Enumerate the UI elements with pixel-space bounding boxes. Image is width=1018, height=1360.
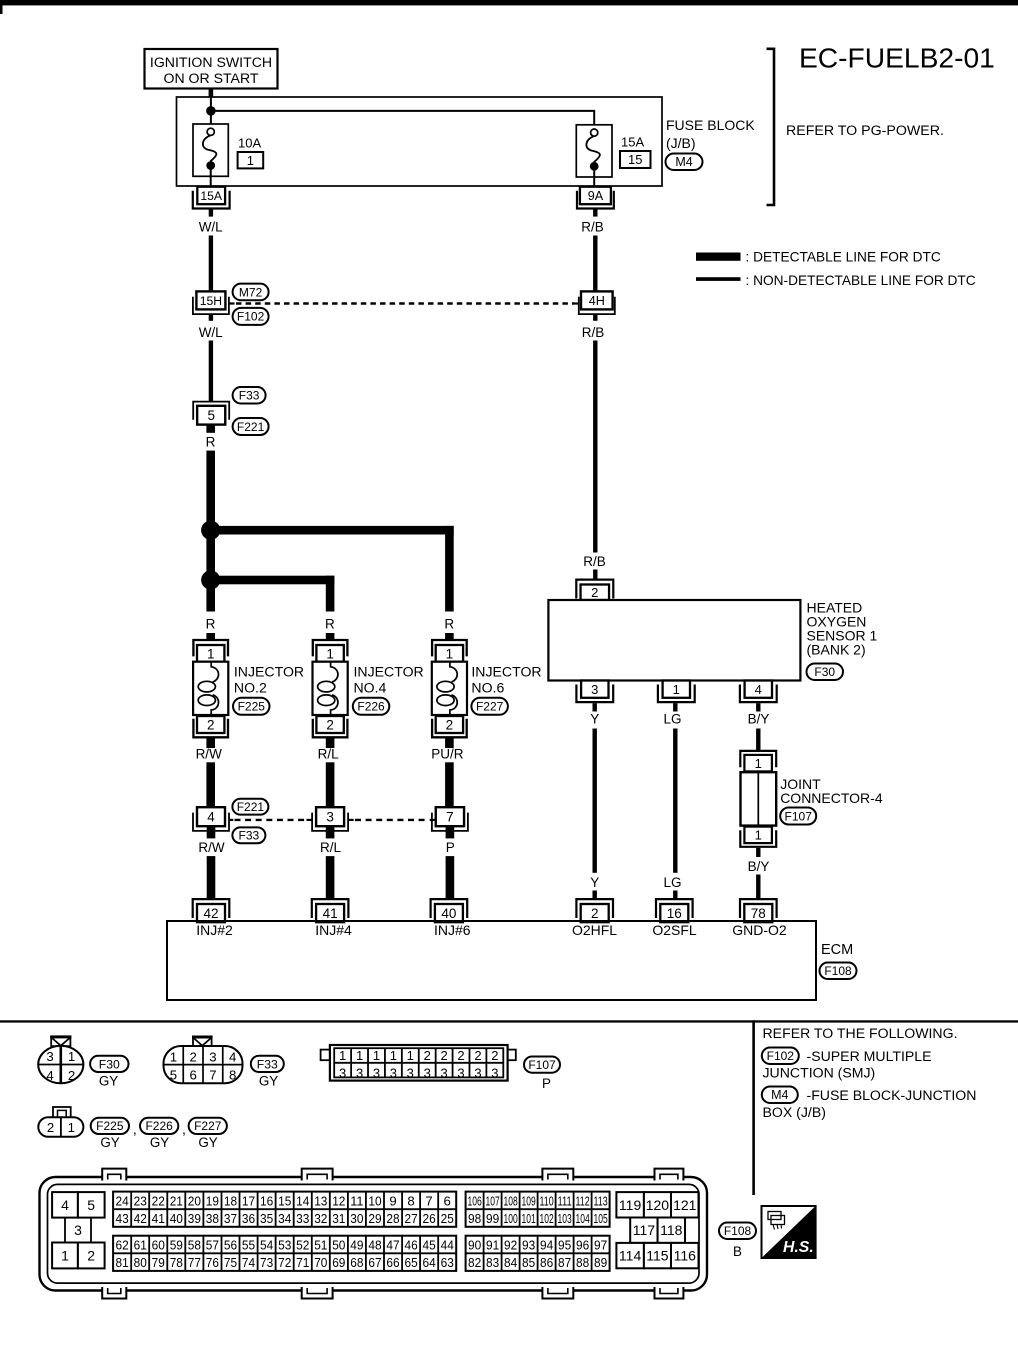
svg-text:39: 39 bbox=[188, 1211, 201, 1226]
svg-text:R: R bbox=[325, 617, 335, 632]
section divider bbox=[0, 1020, 1018, 1195]
svg-text:91: 91 bbox=[486, 1238, 499, 1253]
ignition switch box bbox=[145, 49, 278, 89]
connector F33 bbox=[233, 387, 266, 404]
svg-text:R: R bbox=[444, 617, 454, 632]
svg-text:1: 1 bbox=[373, 1048, 380, 1063]
svg-text:89: 89 bbox=[594, 1255, 607, 1270]
svg-text:69: 69 bbox=[332, 1255, 345, 1270]
svg-text:42: 42 bbox=[134, 1211, 147, 1226]
svg-text:117: 117 bbox=[633, 1222, 656, 1238]
ECM pin 16 O2SFL bbox=[656, 899, 693, 922]
svg-text:100: 100 bbox=[504, 1211, 518, 1226]
svg-text:102: 102 bbox=[540, 1211, 554, 1226]
wire W/L 15H to F33 bbox=[199, 315, 223, 402]
svg-text:34: 34 bbox=[278, 1211, 291, 1226]
svg-text:115: 115 bbox=[646, 1248, 669, 1264]
svg-text:O2SFL: O2SFL bbox=[652, 922, 697, 938]
joint connector-4 pin 1 top bbox=[740, 751, 776, 772]
ECM face right pin block bbox=[616, 1192, 698, 1268]
svg-text:85: 85 bbox=[522, 1255, 535, 1270]
svg-text:INJ#6: INJ#6 bbox=[434, 922, 471, 938]
svg-text:2: 2 bbox=[207, 718, 215, 733]
svg-text:62: 62 bbox=[116, 1238, 129, 1253]
dashed line 3 to 7 bbox=[355, 819, 430, 821]
sensor pin 4 bbox=[740, 681, 777, 703]
svg-text:71: 71 bbox=[296, 1255, 309, 1270]
connector 4 bbox=[193, 807, 233, 831]
svg-text:25: 25 bbox=[441, 1211, 454, 1226]
connector 7 bbox=[430, 807, 468, 831]
fuse 15A label and number 15 bbox=[620, 135, 651, 169]
svg-text:-SUPER MULTIPLE: -SUPER MULTIPLE bbox=[807, 1048, 932, 1064]
svg-text:36: 36 bbox=[242, 1211, 255, 1226]
svg-text:2: 2 bbox=[87, 1248, 95, 1264]
svg-text:105: 105 bbox=[594, 1211, 608, 1226]
svg-text:110: 110 bbox=[540, 1194, 554, 1209]
svg-text:JUNCTION (SMJ): JUNCTION (SMJ) bbox=[763, 1065, 876, 1081]
svg-text:H.S.: H.S. bbox=[783, 1239, 814, 1256]
svg-text:6: 6 bbox=[189, 1068, 196, 1083]
svg-text:2: 2 bbox=[591, 906, 599, 921]
svg-text:17: 17 bbox=[242, 1194, 255, 1209]
wire Y sensor to ECM bbox=[590, 703, 599, 899]
F30 face label bbox=[90, 1056, 128, 1089]
svg-text:,: , bbox=[133, 1121, 137, 1137]
ECM connector face outline bbox=[40, 1169, 708, 1299]
svg-text:ON OR START: ON OR START bbox=[163, 70, 258, 86]
junction node in fuse block bbox=[206, 106, 216, 116]
svg-text:50: 50 bbox=[332, 1238, 345, 1253]
svg-text:27: 27 bbox=[405, 1211, 418, 1226]
svg-text:INJECTOR: INJECTOR bbox=[354, 663, 424, 679]
svg-text:43: 43 bbox=[116, 1211, 129, 1226]
svg-text:F33: F33 bbox=[239, 829, 260, 843]
svg-text:14: 14 bbox=[296, 1194, 309, 1209]
svg-text:1: 1 bbox=[390, 1048, 397, 1063]
svg-text:EC-FUELB2-01: EC-FUELB2-01 bbox=[799, 42, 995, 74]
svg-text:74: 74 bbox=[242, 1255, 255, 1270]
svg-text:68: 68 bbox=[350, 1255, 363, 1270]
scan border bar top bbox=[0, 0, 1018, 14]
svg-text:F221: F221 bbox=[237, 420, 265, 434]
svg-text:P: P bbox=[542, 1076, 551, 1091]
connector 15H bbox=[193, 291, 229, 314]
svg-text:-FUSE BLOCK-JUNCTION: -FUSE BLOCK-JUNCTION bbox=[807, 1087, 977, 1103]
svg-text:7: 7 bbox=[209, 1068, 216, 1083]
connector F221 (lower) bbox=[232, 799, 268, 815]
svg-text:10A: 10A bbox=[238, 136, 261, 151]
connector face F30 bbox=[38, 1035, 83, 1083]
svg-text:53: 53 bbox=[278, 1238, 291, 1253]
svg-text:LG: LG bbox=[663, 875, 681, 890]
refer to the following text bbox=[763, 1025, 958, 1041]
ECM pin 40 INJ#6 bbox=[431, 899, 468, 922]
svg-text:8: 8 bbox=[229, 1068, 236, 1083]
svg-text:48: 48 bbox=[368, 1238, 381, 1253]
svg-text:PU/R: PU/R bbox=[431, 747, 464, 762]
svg-text:F107: F107 bbox=[528, 1058, 556, 1072]
svg-text:INJECTOR: INJECTOR bbox=[234, 663, 304, 679]
wire B/Y sensor to joint connector bbox=[748, 703, 770, 751]
svg-text:64: 64 bbox=[423, 1255, 436, 1270]
svg-text:103: 103 bbox=[558, 1211, 572, 1226]
svg-text:24: 24 bbox=[116, 1194, 129, 1209]
svg-text:3: 3 bbox=[440, 1065, 447, 1080]
wire R branch to injector no.6 bbox=[211, 526, 455, 640]
wire LG sensor to ECM bbox=[663, 703, 681, 899]
svg-text:4: 4 bbox=[229, 1049, 236, 1064]
svg-text:92: 92 bbox=[504, 1238, 517, 1253]
svg-text:120: 120 bbox=[646, 1197, 670, 1213]
svg-text:R/B: R/B bbox=[582, 325, 605, 340]
svg-text:R/W: R/W bbox=[198, 840, 225, 855]
F107 face label bbox=[524, 1057, 560, 1092]
svg-text:1: 1 bbox=[326, 646, 334, 661]
svg-text:57: 57 bbox=[206, 1238, 219, 1253]
svg-text:2: 2 bbox=[424, 1048, 431, 1063]
svg-text:33: 33 bbox=[296, 1211, 309, 1226]
svg-text:F33: F33 bbox=[239, 389, 260, 403]
svg-text:M4: M4 bbox=[771, 1088, 788, 1102]
svg-text:32: 32 bbox=[314, 1211, 327, 1226]
F108 face label bbox=[719, 1223, 756, 1260]
svg-text:18: 18 bbox=[224, 1194, 237, 1209]
svg-text:38: 38 bbox=[206, 1211, 219, 1226]
internal wire to right fuse bbox=[211, 111, 594, 128]
svg-text:116: 116 bbox=[674, 1248, 697, 1264]
svg-text:58: 58 bbox=[188, 1238, 201, 1253]
sensor pin 3 bbox=[576, 681, 613, 703]
connector F30 bbox=[807, 664, 844, 681]
injector no.6 labels bbox=[471, 663, 541, 715]
title EC-FUELB2-01 bbox=[799, 42, 995, 74]
svg-text:13: 13 bbox=[314, 1194, 327, 1209]
svg-text:,: , bbox=[182, 1121, 186, 1137]
junction node 2 bbox=[201, 570, 220, 589]
svg-text:3: 3 bbox=[457, 1065, 464, 1080]
svg-text:87: 87 bbox=[558, 1255, 571, 1270]
wire ignition to fuse block bbox=[209, 89, 214, 98]
svg-text:GY: GY bbox=[259, 1074, 278, 1089]
connector face F33 bbox=[164, 1036, 243, 1084]
svg-text:1: 1 bbox=[339, 1048, 346, 1063]
legend non-detectable line bbox=[696, 273, 976, 288]
connector M72 bbox=[233, 284, 269, 301]
connector 4H bbox=[579, 291, 615, 314]
svg-text:90: 90 bbox=[468, 1238, 481, 1253]
joint connector-4 body bbox=[741, 772, 777, 825]
svg-text:78: 78 bbox=[751, 906, 766, 921]
svg-text:54: 54 bbox=[260, 1238, 273, 1253]
svg-text:3: 3 bbox=[474, 1065, 481, 1080]
svg-text:3: 3 bbox=[591, 682, 598, 697]
svg-text:F30: F30 bbox=[99, 1057, 120, 1071]
svg-text:3: 3 bbox=[407, 1065, 414, 1080]
svg-text:GY: GY bbox=[99, 1074, 118, 1089]
svg-text:9A: 9A bbox=[588, 189, 604, 203]
connector F108 bbox=[820, 963, 857, 980]
svg-text:F226: F226 bbox=[357, 700, 385, 714]
svg-text:F225: F225 bbox=[96, 1119, 124, 1133]
fuse 15A (right) bbox=[576, 125, 612, 186]
svg-text:40: 40 bbox=[170, 1211, 183, 1226]
svg-text:114: 114 bbox=[619, 1248, 642, 1264]
sensor pin 1 bbox=[658, 681, 695, 703]
ECM face grid right upper bbox=[466, 1192, 610, 1227]
injector no.4 F226 bbox=[313, 640, 348, 807]
svg-text:3: 3 bbox=[209, 1049, 216, 1064]
connector 3 bbox=[307, 807, 354, 831]
svg-text:4: 4 bbox=[755, 682, 762, 697]
heated oxygen sensor 1 box bbox=[548, 600, 800, 681]
svg-text:59: 59 bbox=[170, 1238, 183, 1253]
svg-text:66: 66 bbox=[386, 1255, 399, 1270]
svg-text:40: 40 bbox=[441, 906, 456, 921]
svg-text:R: R bbox=[206, 617, 216, 632]
svg-text:108: 108 bbox=[504, 1194, 518, 1209]
svg-text:NO.4: NO.4 bbox=[354, 679, 387, 695]
svg-text:1: 1 bbox=[68, 1049, 75, 1064]
dashed line 4 to 3 bbox=[235, 819, 307, 821]
svg-text:47: 47 bbox=[386, 1238, 399, 1253]
svg-text:F108: F108 bbox=[724, 1224, 752, 1238]
svg-text:81: 81 bbox=[116, 1255, 129, 1270]
svg-text:Y: Y bbox=[590, 875, 599, 890]
M4 fuse block reference bbox=[762, 1087, 977, 1121]
svg-text:15H: 15H bbox=[200, 294, 222, 308]
svg-text:NO.6: NO.6 bbox=[471, 679, 504, 695]
fuse block label bbox=[666, 117, 755, 151]
svg-text:104: 104 bbox=[576, 1211, 590, 1226]
ECM box bbox=[167, 921, 816, 1000]
wire R branch to injector no.4 bbox=[211, 576, 335, 640]
svg-text:55: 55 bbox=[242, 1238, 255, 1253]
junction node 1 bbox=[201, 521, 220, 540]
fuse 10A (left) bbox=[193, 124, 228, 186]
svg-text:4: 4 bbox=[46, 1068, 53, 1083]
terminal 9A bbox=[577, 187, 614, 209]
svg-text:49: 49 bbox=[350, 1238, 363, 1253]
svg-text:98: 98 bbox=[468, 1211, 481, 1226]
svg-text:93: 93 bbox=[522, 1238, 535, 1253]
svg-text:111: 111 bbox=[558, 1194, 572, 1209]
svg-text:75: 75 bbox=[224, 1255, 237, 1270]
H.S. logo bbox=[762, 1206, 816, 1258]
svg-text:23: 23 bbox=[134, 1194, 147, 1209]
svg-text:1: 1 bbox=[61, 1248, 69, 1264]
svg-text:2: 2 bbox=[474, 1048, 481, 1063]
svg-text:30: 30 bbox=[350, 1211, 363, 1226]
svg-text:15: 15 bbox=[628, 152, 642, 167]
svg-text:ECM: ECM bbox=[821, 942, 853, 958]
svg-text:15: 15 bbox=[278, 1194, 291, 1209]
svg-text:3: 3 bbox=[339, 1065, 346, 1080]
svg-text:2: 2 bbox=[491, 1048, 498, 1063]
svg-text:3: 3 bbox=[356, 1065, 363, 1080]
svg-text:60: 60 bbox=[152, 1238, 165, 1253]
svg-text:8: 8 bbox=[407, 1194, 414, 1209]
svg-text:5: 5 bbox=[170, 1068, 177, 1083]
svg-text:41: 41 bbox=[323, 906, 338, 921]
svg-text:GND-O2: GND-O2 bbox=[732, 922, 787, 938]
svg-text:3: 3 bbox=[390, 1065, 397, 1080]
svg-text:1: 1 bbox=[247, 153, 254, 168]
svg-text:26: 26 bbox=[423, 1211, 436, 1226]
svg-text:37: 37 bbox=[224, 1211, 237, 1226]
svg-text:NO.2: NO.2 bbox=[234, 679, 267, 695]
svg-text:R: R bbox=[206, 434, 216, 449]
svg-text:96: 96 bbox=[576, 1238, 589, 1253]
svg-text:109: 109 bbox=[522, 1194, 536, 1209]
svg-text:63: 63 bbox=[441, 1255, 454, 1270]
svg-text:70: 70 bbox=[314, 1255, 327, 1270]
wire B/Y joint connector to ECM bbox=[748, 848, 770, 900]
svg-text:2: 2 bbox=[457, 1048, 464, 1063]
svg-text:21: 21 bbox=[170, 1194, 183, 1209]
svg-text:11: 11 bbox=[350, 1194, 363, 1209]
svg-text:44: 44 bbox=[441, 1238, 454, 1253]
svg-text:2: 2 bbox=[440, 1048, 447, 1063]
svg-text:B: B bbox=[733, 1244, 742, 1259]
F225 F226 F227 face labels bbox=[91, 1118, 227, 1150]
svg-text:19: 19 bbox=[206, 1194, 219, 1209]
connector 5 bbox=[193, 402, 229, 425]
svg-text:15A: 15A bbox=[621, 135, 644, 150]
svg-text:3: 3 bbox=[326, 810, 334, 825]
ECM pin 42 INJ#2 bbox=[193, 899, 230, 922]
svg-text:F221: F221 bbox=[237, 800, 265, 814]
svg-text:R/L: R/L bbox=[320, 840, 342, 855]
fuse 10A label and number 1 bbox=[238, 136, 264, 169]
svg-text:(J/B): (J/B) bbox=[666, 135, 696, 151]
joint connector-4 pin 1 bottom bbox=[740, 827, 776, 847]
svg-text:95: 95 bbox=[558, 1238, 571, 1253]
svg-text:: NON-DETECTABLE LINE FOR DTC: : NON-DETECTABLE LINE FOR DTC bbox=[746, 273, 976, 288]
svg-text:42: 42 bbox=[203, 906, 218, 921]
svg-text:9: 9 bbox=[389, 1194, 396, 1209]
dashed SMJ line 15H to 4H bbox=[229, 302, 579, 304]
svg-text:88: 88 bbox=[576, 1255, 589, 1270]
wire R/L to ECM 41 bbox=[320, 826, 342, 899]
svg-text:O2HFL: O2HFL bbox=[572, 922, 617, 938]
svg-text:2: 2 bbox=[68, 1068, 75, 1083]
svg-text:73: 73 bbox=[260, 1255, 273, 1270]
svg-text:1: 1 bbox=[68, 1120, 75, 1135]
svg-text:4: 4 bbox=[61, 1197, 69, 1213]
svg-text:F33: F33 bbox=[257, 1057, 278, 1071]
injector no.2 labels bbox=[233, 663, 304, 715]
connector face F107 bbox=[321, 1045, 516, 1081]
heated oxygen sensor labels bbox=[807, 599, 878, 657]
svg-text:F225: F225 bbox=[238, 700, 266, 714]
svg-text:CONNECTOR-4: CONNECTOR-4 bbox=[780, 790, 883, 806]
svg-text:10: 10 bbox=[368, 1194, 381, 1209]
svg-text:F227: F227 bbox=[476, 700, 504, 714]
svg-text:80: 80 bbox=[134, 1255, 147, 1270]
svg-text:22: 22 bbox=[152, 1194, 165, 1209]
svg-text:107: 107 bbox=[486, 1194, 500, 1209]
svg-text:R/B: R/B bbox=[583, 554, 606, 569]
svg-text:R/W: R/W bbox=[196, 747, 223, 762]
svg-text:1: 1 bbox=[673, 682, 680, 697]
svg-text:5: 5 bbox=[207, 408, 215, 423]
wire W/L fuse to 15H bbox=[199, 209, 223, 292]
svg-text:52: 52 bbox=[296, 1238, 309, 1253]
svg-text:P: P bbox=[446, 840, 455, 855]
svg-text:Y: Y bbox=[590, 712, 599, 727]
ECM face grid left lower bbox=[113, 1236, 456, 1271]
svg-text:2: 2 bbox=[189, 1049, 196, 1064]
ECM pin labels bbox=[196, 922, 787, 938]
svg-text:67: 67 bbox=[368, 1255, 381, 1270]
svg-text:F30: F30 bbox=[814, 665, 835, 679]
ECM face left pin block bbox=[52, 1192, 105, 1268]
svg-text:3: 3 bbox=[46, 1049, 53, 1064]
internal wire to left fuse bbox=[210, 97, 212, 128]
svg-text:4: 4 bbox=[207, 810, 215, 825]
joint connector labels bbox=[780, 776, 883, 806]
svg-text:B/Y: B/Y bbox=[748, 859, 770, 874]
svg-text:BOX (J/B): BOX (J/B) bbox=[763, 1104, 826, 1120]
sensor pin 2 bbox=[576, 580, 613, 600]
svg-text:REFER TO PG-POWER.: REFER TO PG-POWER. bbox=[786, 123, 944, 139]
svg-text:INJ#2: INJ#2 bbox=[196, 922, 233, 938]
svg-text:GY: GY bbox=[198, 1135, 217, 1150]
svg-text:3: 3 bbox=[74, 1222, 82, 1238]
svg-text:F227: F227 bbox=[194, 1119, 222, 1133]
svg-text:R/L: R/L bbox=[318, 747, 340, 762]
connector F221 bbox=[233, 418, 269, 435]
svg-text:78: 78 bbox=[170, 1255, 183, 1270]
svg-text:41: 41 bbox=[152, 1211, 165, 1226]
ECM pin 78 GND-O2 bbox=[740, 899, 777, 922]
svg-text:16: 16 bbox=[667, 906, 682, 921]
svg-text:1: 1 bbox=[755, 756, 762, 771]
connector face F225/F226/F227 bbox=[38, 1107, 83, 1137]
connector F33 (lower) bbox=[232, 827, 265, 843]
bracket refer to pg-power bbox=[767, 49, 944, 205]
svg-text:(BANK 2): (BANK 2) bbox=[807, 641, 866, 657]
wire R trunk bbox=[206, 425, 216, 640]
svg-text:82: 82 bbox=[468, 1255, 481, 1270]
svg-text:2: 2 bbox=[326, 718, 334, 733]
svg-text:77: 77 bbox=[188, 1255, 201, 1270]
wire P to ECM 40 bbox=[446, 826, 455, 899]
svg-text:LG: LG bbox=[663, 712, 681, 727]
svg-text:F102: F102 bbox=[767, 1049, 795, 1063]
svg-text:61: 61 bbox=[134, 1238, 147, 1253]
ECM face grid left upper bbox=[113, 1192, 456, 1227]
connector F102 bbox=[233, 308, 269, 325]
svg-text:31: 31 bbox=[332, 1211, 345, 1226]
svg-text:84: 84 bbox=[504, 1255, 517, 1270]
svg-text:83: 83 bbox=[486, 1255, 499, 1270]
svg-text:51: 51 bbox=[314, 1238, 327, 1253]
svg-text:5: 5 bbox=[87, 1197, 95, 1213]
svg-text:M4: M4 bbox=[675, 155, 692, 169]
svg-text:1: 1 bbox=[755, 828, 762, 843]
fuse block J/B box bbox=[177, 97, 663, 186]
svg-text:112: 112 bbox=[576, 1194, 590, 1209]
terminal 15A bbox=[193, 187, 230, 209]
svg-text:97: 97 bbox=[594, 1238, 607, 1253]
svg-text:119: 119 bbox=[619, 1197, 642, 1213]
svg-text:M72: M72 bbox=[239, 285, 263, 299]
svg-text:106: 106 bbox=[468, 1194, 482, 1209]
svg-text:FUSE BLOCK: FUSE BLOCK bbox=[666, 117, 755, 133]
svg-text:29: 29 bbox=[368, 1211, 381, 1226]
